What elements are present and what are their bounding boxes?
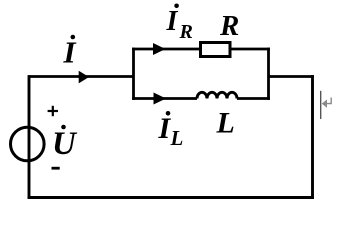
- dot of I_R: [174, 4, 179, 9]
- wire: right vertical wire: [311, 75, 314, 199]
- label: + polarity: [48, 106, 58, 116]
- dot of I_L: [166, 111, 171, 116]
- paragraph return mark (gray enter symbol): [324, 98, 331, 104]
- wire: bottom branch left segment (L branch): [132, 97, 197, 100]
- arrow: current IR on top branch: [153, 43, 166, 55]
- text caret (gray insertion bar): [320, 91, 321, 119]
- arrow: current IL on bottom branch: [154, 93, 167, 105]
- svg-text:L: L: [216, 107, 235, 140]
- wire: bottom branch right segment (L branch): [237, 97, 270, 100]
- wire: output wire from box right edge to right vertical: [269, 75, 314, 78]
- svg-text:L: L: [170, 126, 184, 150]
- svg-text:U: U: [52, 126, 78, 162]
- svg-text:R: R: [179, 21, 193, 43]
- arrow: current I on top wire: [79, 71, 89, 84]
- dot of I: [71, 35, 76, 40]
- node: parallel box right edge: [267, 48, 270, 100]
- svg-text:I: I: [166, 6, 179, 37]
- wire: top wire from left corner to parallel box: [29, 75, 134, 78]
- resistor R: [201, 43, 231, 57]
- svg-text:I: I: [63, 35, 77, 70]
- svg-text:R: R: [219, 10, 239, 42]
- wire: bottom wire: [28, 196, 315, 199]
- wire: left vertical wire: [28, 75, 31, 199]
- node: parallel box left edge: [132, 48, 135, 100]
- label: - polarity: [52, 167, 60, 170]
- wire: top branch (R branch): [132, 48, 270, 51]
- dot of U: [61, 125, 66, 130]
- source U (AC source circle): [11, 127, 45, 161]
- inductor L (4 humps): [197, 92, 237, 98]
- svg-text:I: I: [158, 112, 172, 145]
